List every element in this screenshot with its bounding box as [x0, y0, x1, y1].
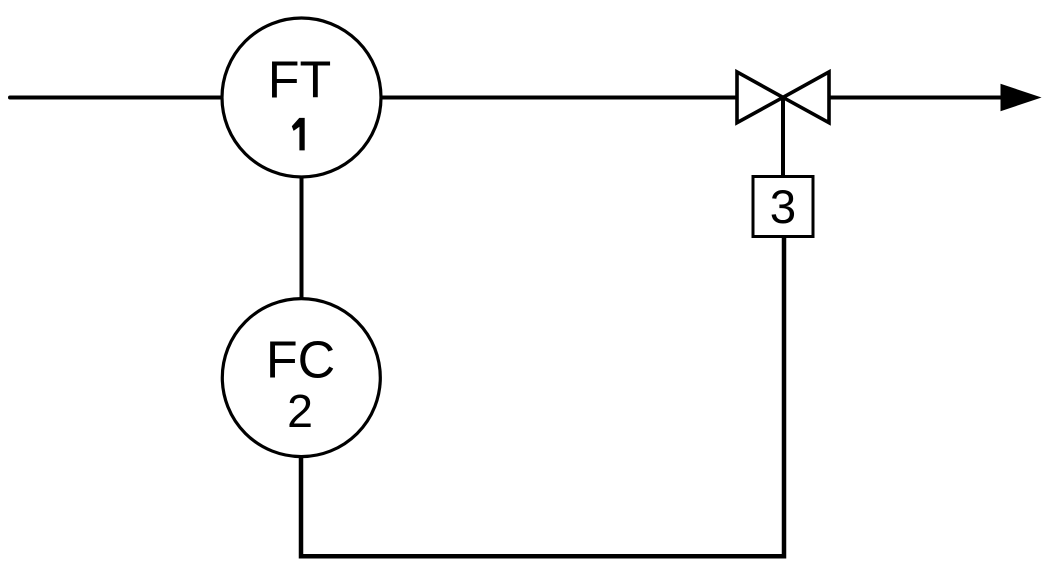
wire: signal path FC2 down, across bottom, up to box 3	[301, 238, 784, 556]
svg-text:FT: FT	[268, 52, 332, 110]
wire: pipe valve to outlet	[827, 96, 1004, 100]
wire: valve stem, crossing to box 3	[781, 98, 785, 179]
wire: signal line FT1 to FC2	[300, 177, 304, 300]
arrowhead: outlet flow arrow	[1001, 85, 1040, 111]
valve: control valve right triangle	[783, 72, 829, 123]
svg-text:FC: FC	[266, 332, 335, 390]
instrument FT1: flow transmitter circle	[222, 18, 381, 177]
controller FC2: flow controller circle	[222, 299, 380, 457]
wire: inlet pipe (left)	[10, 96, 223, 100]
label 1	[292, 118, 305, 150]
valve: control valve left triangle	[737, 72, 783, 123]
svg-text:3: 3	[770, 181, 796, 234]
svg-text:2: 2	[287, 385, 313, 437]
box 3: transducer square	[753, 177, 813, 237]
wire: pipe FT1 to valve	[380, 96, 739, 100]
